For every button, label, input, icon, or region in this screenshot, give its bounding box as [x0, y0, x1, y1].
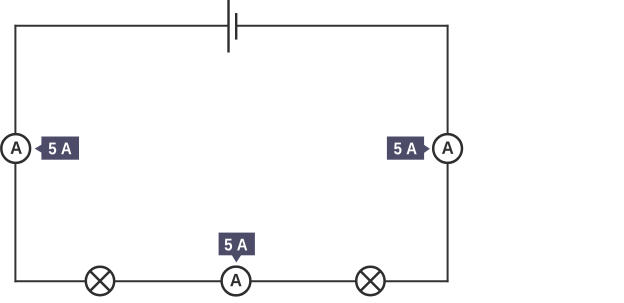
- ammeter A1 (left side): [1, 134, 30, 163]
- lamp L2 (bottom right, circle with X): [356, 267, 384, 295]
- wire top-left segment: [14, 25, 228, 27]
- battery cell short plate (negative): [235, 13, 237, 40]
- wire right side: [447, 25, 449, 283]
- label 5 A (bottom, arrow pointing down at ammeter): [219, 233, 255, 263]
- battery cell long plate (positive): [227, 0, 229, 53]
- label 5 A (left, arrow pointing left at ammeter): [35, 137, 79, 160]
- lamp L1 (bottom left, circle with X): [86, 267, 114, 295]
- wire top-right segment: [236, 25, 448, 27]
- wire left side: [14, 25, 16, 283]
- label 5 A (right, arrow pointing right at ammeter): [387, 137, 430, 160]
- ammeter A3 (bottom middle): [222, 267, 251, 296]
- wire bottom: [14, 280, 448, 282]
- ammeter A2 (right side): [433, 134, 462, 163]
